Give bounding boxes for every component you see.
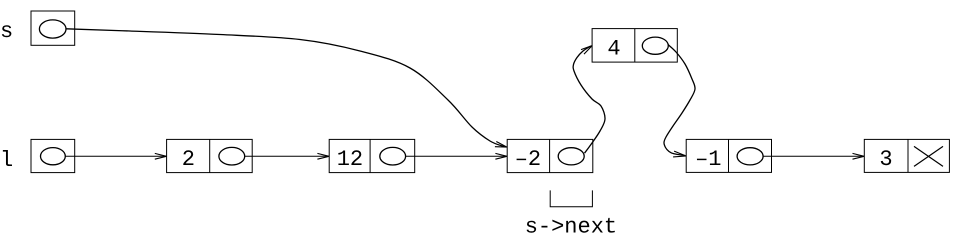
node 12 pointer ellipse — [380, 147, 406, 165]
node 12 box — [329, 139, 415, 172]
s->next bracket — [550, 190, 592, 206]
wire node 2 to node 12 — [245, 155, 329, 157]
arrowhead into node 4 — [581, 46, 592, 55]
svg-text:4: 4 — [607, 37, 620, 62]
curved wire node -2 to node 4 — [573, 46, 605, 153]
svg-text:l: l — [0, 148, 13, 173]
arrowhead s-curve into node -2 — [495, 142, 507, 148]
node 4 box — [592, 29, 677, 63]
svg-text:12: 12 — [337, 147, 363, 172]
svg-text:–2: –2 — [515, 147, 541, 172]
node -2 box — [507, 139, 593, 172]
node 12 divider — [369, 139, 371, 172]
pointer box s — [31, 11, 75, 45]
svg-text:3: 3 — [879, 147, 892, 172]
arrowhead into node 12 — [317, 153, 329, 159]
curved wire s to node -2 — [66, 29, 504, 147]
curved wire node 4 to node -1 — [664, 45, 695, 156]
node 2 divider — [209, 139, 211, 172]
svg-text:s->next: s->next — [525, 215, 617, 234]
node 3 divider — [907, 139, 909, 172]
node -1 pointer ellipse — [737, 148, 763, 165]
arrowhead into node 3 — [853, 153, 865, 159]
pointer box l — [31, 139, 75, 172]
node -1 divider — [728, 139, 730, 172]
node -2 divider — [549, 139, 551, 172]
arrowhead into node -1 — [673, 151, 686, 157]
wire node -1 to node 3 — [763, 155, 864, 157]
node -2 pointer ellipse — [558, 148, 584, 165]
wire node 12 to node -2 — [406, 155, 507, 157]
pointer ellipse s — [39, 20, 66, 38]
svg-text:–1: –1 — [695, 147, 721, 172]
node 3 null X — [914, 146, 943, 166]
arrowhead into node 2 — [155, 153, 167, 159]
svg-text:s: s — [0, 19, 13, 44]
pointer ellipse l — [41, 148, 66, 165]
node 4 pointer ellipse — [642, 37, 668, 54]
node 3 box — [864, 139, 949, 172]
node 2 pointer ellipse — [219, 147, 245, 165]
wire l to node 2 — [65, 155, 166, 157]
node 2 box — [167, 139, 253, 172]
node 4 divider — [634, 29, 636, 63]
arrowhead into node -2 — [495, 153, 507, 159]
svg-text:2: 2 — [182, 147, 195, 172]
node -1 box — [686, 139, 771, 172]
